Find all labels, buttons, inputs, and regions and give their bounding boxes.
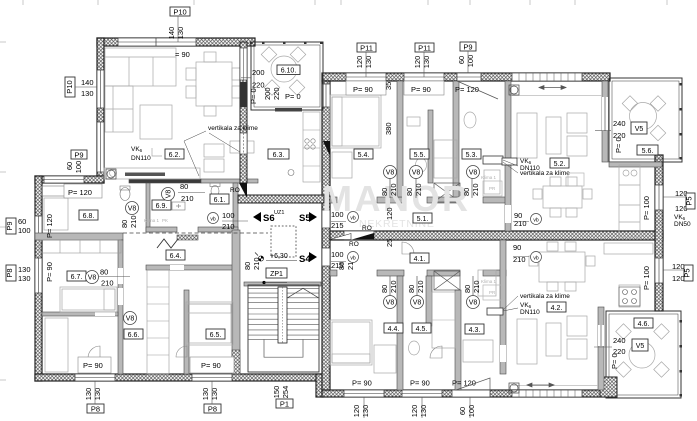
bed 5.4 xyxy=(330,95,381,148)
dimension separator lines xyxy=(178,192,529,261)
svg-text:4.5.: 4.5. xyxy=(416,326,428,333)
svg-text:6.5.: 6.5. xyxy=(210,332,222,339)
wall top-left: x97-255 y38-46 xyxy=(97,38,255,46)
Q symbols xyxy=(106,85,519,393)
divider wall 5/4 y231-240 x330-663 xyxy=(330,231,663,240)
svg-text:60: 60 xyxy=(458,407,467,415)
svg-text:P9: P9 xyxy=(5,221,14,230)
svg-text:vertikala za klime: vertikala za klime xyxy=(520,170,570,177)
room label 6.1 xyxy=(210,194,229,204)
S arrows xyxy=(253,212,317,265)
svg-text:210: 210 xyxy=(514,219,527,228)
svg-text:80: 80 xyxy=(337,262,346,270)
svg-text:130: 130 xyxy=(361,405,370,418)
extension top wall x35-104 y176-183 xyxy=(35,176,104,183)
door mark V8 at 130,318 xyxy=(124,312,137,325)
svg-text:= 90: = 90 xyxy=(175,50,190,59)
svg-text:80: 80 xyxy=(407,285,416,293)
stove 4.2 xyxy=(619,287,640,306)
right wall x655-663 y162-307 xyxy=(655,155,663,311)
room label 5.6 xyxy=(637,145,658,155)
corridor wall hatched piece xyxy=(238,195,324,203)
svg-text:90: 90 xyxy=(513,243,521,252)
svg-text:150: 150 xyxy=(272,386,281,399)
top wall middle x322-610 y73-81 xyxy=(322,73,610,81)
svg-text:P5: P5 xyxy=(685,196,694,205)
svg-text:vb: vb xyxy=(350,256,356,262)
svg-text:4.1.: 4.1. xyxy=(414,256,426,263)
beds left xyxy=(60,287,117,312)
room label 4.6 xyxy=(634,318,653,328)
svg-text:P= 0: P= 0 xyxy=(285,92,301,101)
svg-text:60: 60 xyxy=(18,217,26,226)
svg-text:vertikala za klime: vertikala za klime xyxy=(520,293,570,300)
dining table unit6 xyxy=(196,62,232,106)
svg-text:P9: P9 xyxy=(74,151,83,160)
svg-text:V8: V8 xyxy=(469,300,478,307)
washing machine 6.9 xyxy=(42,183,220,210)
svg-text:VK6: VK6 xyxy=(520,158,532,165)
svg-text:P= 90: P= 90 xyxy=(410,379,430,388)
4.5 bath fixtures xyxy=(432,292,455,348)
svg-text:VK6: VK6 xyxy=(674,214,686,221)
glazing line terrace window xyxy=(604,97,606,131)
door mark V8 at 473,172 xyxy=(467,166,480,179)
svg-text:P= 0: P= 0 xyxy=(614,137,623,153)
room label 4.5 xyxy=(412,323,431,333)
room label 5.4 xyxy=(354,149,373,159)
svg-text:200: 200 xyxy=(263,87,272,100)
room label 6.6 xyxy=(124,329,143,339)
svg-text:80: 80 xyxy=(380,188,389,196)
terrace 5.6 table xyxy=(630,103,657,130)
svg-text:80: 80 xyxy=(405,188,414,196)
4.2 living furniture xyxy=(517,319,537,364)
door mark V8 at 390,302 xyxy=(384,296,397,309)
wall upper-left vertical x97-104 y38-183 xyxy=(97,38,104,183)
room label 4.3 xyxy=(465,324,484,334)
svg-text:6.7.: 6.7. xyxy=(71,274,83,281)
svg-text:vb: vb xyxy=(350,216,356,222)
svg-text:6.3.: 6.3. xyxy=(273,152,285,159)
svg-text:100: 100 xyxy=(18,226,31,235)
svg-text:P11: P11 xyxy=(418,44,431,53)
svg-text:vb: vb xyxy=(533,256,539,262)
svg-text:DN110: DN110 xyxy=(131,155,151,162)
svg-text:120: 120 xyxy=(355,56,364,69)
P= texts xyxy=(64,184,102,198)
terrace 6.10 table xyxy=(271,56,297,82)
label ZP1 xyxy=(266,268,287,278)
svg-text:P= 90: P= 90 xyxy=(352,379,372,388)
svg-text:210: 210 xyxy=(129,215,138,228)
svg-text:220: 220 xyxy=(272,87,281,100)
V8 circles xyxy=(86,166,542,325)
svg-text:130: 130 xyxy=(419,405,428,418)
svg-text:P= 0: P= 0 xyxy=(610,353,619,369)
svg-text:80: 80 xyxy=(243,262,252,270)
VK6 symbol boxes xyxy=(483,156,517,315)
svg-text:P= 90: P= 90 xyxy=(83,361,103,370)
svg-text:P= 120: P= 120 xyxy=(455,85,479,94)
party wall x322-330 y81-390 xyxy=(322,81,330,390)
svg-text:80: 80 xyxy=(180,182,188,191)
svg-text:UZ1: UZ1 xyxy=(274,210,284,216)
svg-text:4.6.: 4.6. xyxy=(638,321,650,328)
svg-text:P9: P9 xyxy=(463,43,472,52)
svg-text:130: 130 xyxy=(81,89,94,98)
black door wedges xyxy=(239,183,247,198)
5.2 / 5.6 divider xyxy=(602,81,608,162)
svg-text:5.1.: 5.1. xyxy=(417,216,429,223)
svg-text:130: 130 xyxy=(210,388,219,401)
svg-text:VK6: VK6 xyxy=(520,302,532,309)
kitchen counter 6.3 xyxy=(288,139,315,176)
cabinet row 6.7 xyxy=(40,240,121,253)
svg-text:V8: V8 xyxy=(469,170,478,177)
room label 4.2 xyxy=(547,302,566,312)
svg-text:V8: V8 xyxy=(88,275,97,282)
svg-text:Klima 1: Klima 1 xyxy=(144,218,160,223)
svg-text:P8: P8 xyxy=(91,405,100,414)
svg-text:5.2.: 5.2. xyxy=(554,161,566,168)
svg-text:60: 60 xyxy=(457,56,466,64)
svg-text:80: 80 xyxy=(120,220,129,228)
svg-text:5.6.: 5.6. xyxy=(642,148,654,155)
stair area walls xyxy=(244,282,321,286)
svg-text:V8: V8 xyxy=(128,206,137,213)
svg-text:100: 100 xyxy=(331,210,344,219)
svg-text:RO: RO xyxy=(230,187,240,194)
svg-text:100: 100 xyxy=(222,211,235,220)
svg-text:130: 130 xyxy=(201,388,210,401)
svg-text:P= 120: P= 120 xyxy=(452,379,476,388)
svg-text:vb: vb xyxy=(210,217,216,223)
svg-text:4.3.: 4.3. xyxy=(469,327,481,334)
svg-text:VK6: VK6 xyxy=(131,146,143,153)
door axis lines xyxy=(390,178,473,296)
svg-text:P1: P1 xyxy=(280,400,289,409)
closet column 6.6 xyxy=(147,270,169,374)
svg-text:PR: PR xyxy=(489,290,496,295)
svg-text:V8: V8 xyxy=(386,170,395,177)
PK boxes xyxy=(483,173,584,300)
svg-text:130: 130 xyxy=(176,27,185,40)
svg-text:5.5.: 5.5. xyxy=(414,152,426,159)
svg-text:RO: RO xyxy=(362,225,372,232)
svg-text:120: 120 xyxy=(385,207,394,220)
svg-text:25: 25 xyxy=(385,239,394,247)
door mark V8 at 132,208 xyxy=(126,202,139,215)
kitchen unit6 xyxy=(104,168,200,179)
svg-text:240: 240 xyxy=(613,336,626,345)
east wall of living room x240-247 xyxy=(240,42,247,183)
svg-text:60: 60 xyxy=(65,162,74,170)
4.2 / 4.6 divider xyxy=(598,307,604,390)
svg-text:vertikala za klime: vertikala za klime xyxy=(208,125,258,132)
window in top wall P10 xyxy=(118,38,196,46)
80/210 pairs rotated (doors) xyxy=(100,182,481,293)
svg-text:Klima 1: Klima 1 xyxy=(481,175,497,180)
svg-text:6.9.: 6.9. xyxy=(156,203,168,210)
svg-text:5.3.: 5.3. xyxy=(466,152,478,159)
mid verticals top (unit 5) xyxy=(397,81,403,197)
crossed boxes xyxy=(434,183,460,290)
svg-text:P10: P10 xyxy=(65,80,74,93)
svg-text:V5: V5 xyxy=(636,343,645,350)
svg-text:P10: P10 xyxy=(173,8,186,17)
svg-text:120: 120 xyxy=(413,56,422,69)
room label 6.3 xyxy=(268,149,289,159)
door mark V8 at 473,302 xyxy=(467,296,480,309)
svg-text:V8: V8 xyxy=(413,300,422,307)
svg-text:V8: V8 xyxy=(386,300,395,307)
terrace 4.6 bottom right xyxy=(606,311,681,398)
room label 4.4 xyxy=(384,323,403,333)
svg-text:RO: RO xyxy=(349,241,359,248)
svg-text:80: 80 xyxy=(380,285,389,293)
svg-text:6.4.: 6.4. xyxy=(170,253,182,260)
svg-text:vb: vb xyxy=(533,218,539,224)
right edge P5 dims xyxy=(642,189,695,220)
room label 6.5 xyxy=(206,329,225,339)
dashed corridor line xyxy=(123,232,268,234)
fridge/oven boxes 6.2 xyxy=(204,141,254,172)
room label 4.1 xyxy=(410,253,429,263)
bottom wall right x322-608 y390-397 xyxy=(322,390,608,397)
door arcs bottom rooms xyxy=(88,242,442,358)
railing posts xyxy=(250,42,682,397)
extra furniture xyxy=(44,198,68,230)
mid verticals bottom (unit 4) xyxy=(397,276,403,390)
sliding door arrows xyxy=(512,73,582,81)
svg-text:P= 100: P= 100 xyxy=(642,196,651,220)
svg-text:Klima 1: Klima 1 xyxy=(481,279,497,284)
svg-text:6.1.: 6.1. xyxy=(214,197,226,204)
svg-text:100: 100 xyxy=(466,55,475,68)
svg-text:6.2.: 6.2. xyxy=(169,152,181,159)
dashed square ZP1 xyxy=(271,226,296,257)
svg-text:6.8.: 6.8. xyxy=(83,213,95,220)
svg-text:380: 380 xyxy=(384,122,393,135)
svg-text:254: 254 xyxy=(281,386,290,399)
terrace 5.6 top right xyxy=(609,78,682,162)
svg-text:P11: P11 xyxy=(360,44,373,53)
svg-text:P= 0: P= 0 xyxy=(249,88,258,104)
svg-text:ZP1: ZP1 xyxy=(270,271,283,278)
door mark V8 at 390,172 xyxy=(384,166,397,179)
room label 5.3 xyxy=(462,149,481,159)
5.2 kitchen strip xyxy=(619,165,640,237)
svg-text:120: 120 xyxy=(352,405,361,418)
svg-text:130: 130 xyxy=(18,265,31,274)
svg-text:P= 90: P= 90 xyxy=(201,361,221,370)
door mark V8 at 92,277 xyxy=(86,271,99,284)
svg-text:V8: V8 xyxy=(412,170,421,177)
svg-text:100: 100 xyxy=(467,405,476,418)
P boxes with text xyxy=(167,7,190,42)
svg-text:PK: PK xyxy=(162,218,168,223)
svg-text:130: 130 xyxy=(18,274,31,283)
4.3 fixtures xyxy=(478,270,496,296)
svg-text:130: 130 xyxy=(422,56,431,69)
svg-text:215: 215 xyxy=(331,221,344,230)
room label boxes xyxy=(67,65,658,351)
svg-text:200: 200 xyxy=(252,68,265,77)
svg-text:P= 90: P= 90 xyxy=(45,262,54,282)
6.9 bathroom walls xyxy=(146,183,150,232)
svg-text:V8: V8 xyxy=(126,316,135,323)
bottom left P8 P8 P1 xyxy=(84,381,104,414)
svg-text:35: 35 xyxy=(384,82,393,90)
left rooms xyxy=(35,233,123,240)
svg-text:6.10.: 6.10. xyxy=(281,68,297,75)
svg-text:DN110: DN110 xyxy=(520,309,540,316)
svg-text:PR: PR xyxy=(489,186,496,191)
svg-text:P= 120: P= 120 xyxy=(68,188,92,197)
corridor 4.1 bottom wall xyxy=(330,270,337,276)
svg-text:P8: P8 xyxy=(5,268,14,277)
svg-text:210: 210 xyxy=(414,183,423,196)
svg-text:100: 100 xyxy=(331,250,344,259)
room label 5.1 xyxy=(413,213,432,223)
room label 6.10 xyxy=(277,65,300,75)
room label 6.2 xyxy=(165,149,184,159)
room label 5.5 xyxy=(410,149,429,159)
terrace 4.6 table xyxy=(629,342,655,368)
bed 4.4 xyxy=(330,320,372,365)
svg-text:P= 90: P= 90 xyxy=(353,85,373,94)
room label 6.4 xyxy=(166,250,185,260)
door circle vb at 536,219 xyxy=(531,214,542,225)
svg-text:130: 130 xyxy=(364,56,373,69)
svg-text:P= 120: P= 120 xyxy=(45,214,54,238)
svg-text:120: 120 xyxy=(410,405,419,418)
svg-text:140: 140 xyxy=(167,27,176,40)
svg-text:130: 130 xyxy=(93,388,102,401)
svg-text:210: 210 xyxy=(181,194,194,203)
5.3 bath fixtures xyxy=(484,170,500,194)
svg-text:4.4.: 4.4. xyxy=(388,326,400,333)
svg-text:S6: S6 xyxy=(263,213,275,224)
bottom wall left x35-322 y374-381 xyxy=(35,374,322,381)
room label 6.7 xyxy=(67,271,86,281)
room label 6.8 xyxy=(79,210,98,220)
svg-text:4.2.: 4.2. xyxy=(551,305,563,312)
bottom right dims xyxy=(352,397,370,418)
svg-text:130: 130 xyxy=(84,388,93,401)
door mark V8 at 416,172 xyxy=(410,166,423,179)
room label V5 upper xyxy=(631,122,647,134)
unit6 living: L sofa xyxy=(105,48,176,86)
svg-text:P= 90: P= 90 xyxy=(411,85,431,94)
svg-text:+6,30: +6,30 xyxy=(270,253,288,260)
svg-text:100: 100 xyxy=(74,161,83,174)
svg-text:80: 80 xyxy=(100,268,108,277)
svg-text:6.6.: 6.6. xyxy=(128,332,140,339)
zigzag break 6.4 xyxy=(157,239,178,248)
svg-text:P= 100: P= 100 xyxy=(642,266,651,290)
svg-text:240: 240 xyxy=(613,119,626,128)
door mark V8 at 168,194 xyxy=(162,188,175,201)
svg-text:140: 140 xyxy=(81,78,94,87)
left wall x35-42 y176-381 xyxy=(35,176,42,381)
svg-text:210: 210 xyxy=(101,279,114,288)
svg-text:210: 210 xyxy=(222,222,235,231)
door mark V8 at 417,302 xyxy=(411,296,424,309)
svg-text:80: 80 xyxy=(463,285,472,293)
door circle vb at 536,257 xyxy=(531,252,542,263)
step wall x316-323 y374-397 xyxy=(316,374,323,397)
4.2 kitchen strip xyxy=(604,243,653,254)
svg-text:P8: P8 xyxy=(208,405,217,414)
terrace 6.10 top xyxy=(251,42,323,110)
door circle vb at 353,217 xyxy=(348,212,359,223)
left edge P9/P8 xyxy=(5,214,54,238)
svg-text:5.4.: 5.4. xyxy=(358,152,370,159)
door circle vb at 353,257 xyxy=(348,252,359,263)
corridor 5.1 top wall xyxy=(330,197,337,203)
svg-text:V8: V8 xyxy=(166,190,173,199)
unit6 kitchen wall xyxy=(129,179,201,183)
svg-text:V5: V5 xyxy=(635,126,644,133)
room label 6.9 xyxy=(152,200,171,210)
5.2 living furniture xyxy=(517,113,537,158)
svg-text:80: 80 xyxy=(462,188,471,196)
room label 5.2 xyxy=(550,158,569,168)
svg-text:DN50: DN50 xyxy=(674,221,691,228)
door circle vb at 213,218 xyxy=(208,213,219,224)
